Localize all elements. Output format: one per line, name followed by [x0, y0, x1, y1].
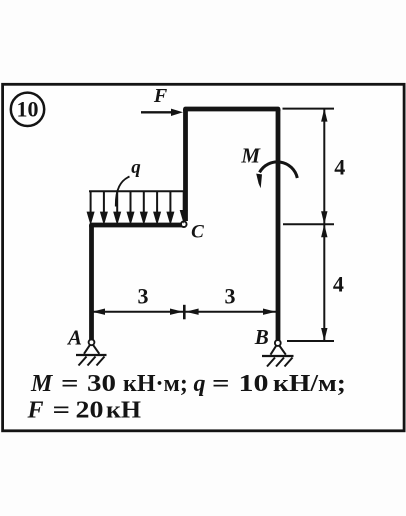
distributed load q: top line — [89, 190, 186, 192]
horizontal dimension line 3+3 — [92, 305, 276, 320]
dimension extension line top — [283, 108, 335, 110]
svg-text:M: M — [240, 144, 261, 168]
distributed load q: arrows — [88, 192, 186, 222]
moment M arc — [256, 162, 297, 188]
node C circle — [181, 221, 187, 227]
svg-text:B: B — [254, 325, 269, 349]
pin support B — [262, 340, 294, 366]
svg-text:C: C — [191, 222, 204, 243]
dimension extension line middle — [283, 223, 334, 225]
svg-text:q: q — [131, 157, 141, 178]
leader line for q — [116, 177, 130, 207]
force F arrow — [141, 109, 183, 116]
problem number badge 10 — [11, 93, 44, 126]
svg-text:A: A — [66, 326, 82, 350]
svg-text:4: 4 — [333, 272, 344, 297]
svg-text:F: F — [153, 85, 168, 107]
pin support A — [76, 339, 107, 365]
dimension extension line bottom — [287, 340, 334, 342]
svg-text:3: 3 — [225, 284, 236, 309]
vertical dimension line 4+4 — [321, 109, 327, 341]
member: top horizontal beam — [186, 109, 279, 111]
member: right column to B — [276, 109, 281, 343]
member: middle vertical column C to top — [183, 109, 188, 221]
svg-text:4: 4 — [334, 155, 345, 180]
svg-text:10: 10 — [17, 96, 39, 121]
svg-text:3: 3 — [138, 284, 149, 309]
member: left column at A — [89, 225, 94, 341]
member: lower horizontal beam to C — [92, 225, 184, 227]
